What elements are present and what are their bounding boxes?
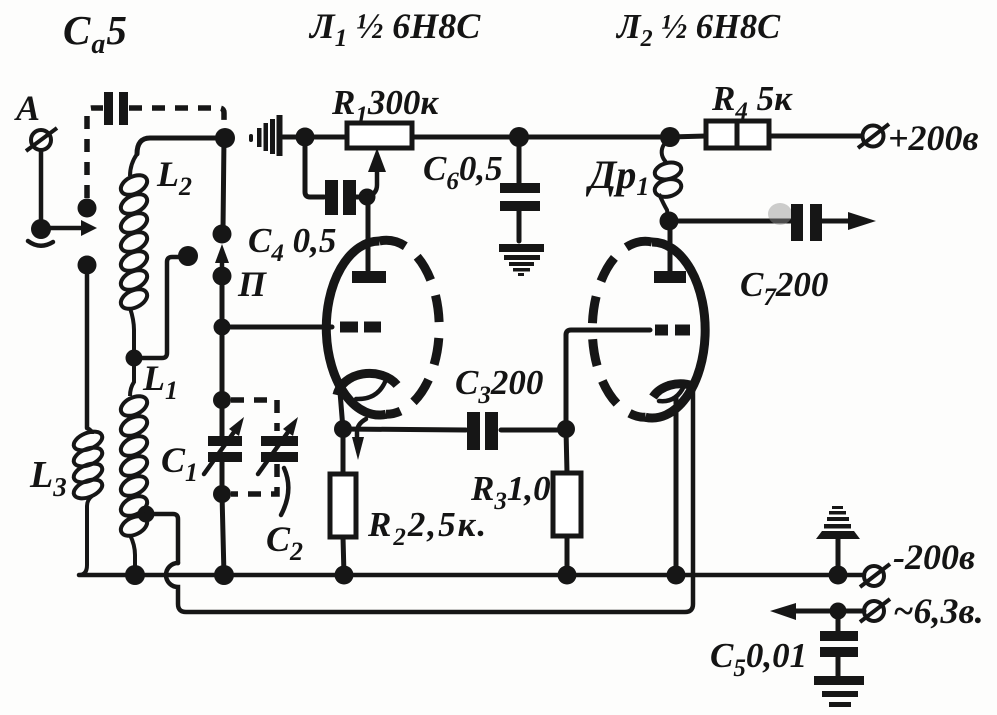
- wire grid junction to C1 top: [220, 327, 225, 400]
- heater line with hop: [166, 390, 693, 612]
- output arrow: [822, 212, 876, 230]
- switch arm arrow: [46, 220, 97, 236]
- node anode/choke junction dot: [660, 212, 679, 231]
- node C6 rail dot: [509, 127, 529, 147]
- dashed box C2 bottom: [231, 464, 277, 494]
- tube Л2 anode: [654, 271, 686, 283]
- node bus dot L1: [125, 565, 145, 585]
- wire cathode to C3: [343, 429, 466, 430]
- wire R2 bottom: [343, 537, 344, 575]
- wire grid leak from rail: [305, 137, 324, 197]
- wire C6 stem: [517, 137, 522, 184]
- tube Л2 cathode lead: [674, 398, 679, 575]
- svg-text:+200в: +200в: [888, 118, 979, 158]
- dashed wire Ca to top junction: [129, 108, 224, 129]
- capacitor Ca plates: [104, 92, 128, 125]
- coil L2: [118, 154, 151, 352]
- tube Л2 cathode arc: [653, 384, 693, 397]
- resistor R1: [347, 123, 412, 148]
- wire ground stem: [836, 539, 841, 575]
- node C3 right dot: [557, 420, 575, 438]
- tube Л1 anode: [352, 271, 386, 283]
- tube Л2 heater arc: [659, 386, 684, 401]
- variable capacitor C2: [258, 417, 298, 474]
- node Dr1 rail dot: [660, 127, 680, 147]
- dashed wire upper contact to Ca: [87, 108, 103, 198]
- tube Л1 heater arc: [356, 382, 385, 399]
- wiper arrow to R1: [367, 148, 386, 197]
- variable capacitor C1: [204, 417, 244, 474]
- switch pivot dot: [31, 219, 51, 239]
- wire П dot down to grid junction: [220, 276, 225, 332]
- resistor R3: [553, 473, 581, 536]
- capacitor C7: [791, 204, 822, 241]
- resistor R4: [706, 121, 769, 148]
- node cathode junction dot: [334, 420, 352, 438]
- tube Л1 cathode arc: [337, 373, 397, 395]
- plug arrow C4: [215, 244, 229, 270]
- wire grid riser tube2: [566, 330, 650, 429]
- bottom bus: [79, 573, 864, 578]
- terminal +200v: [858, 124, 889, 148]
- dashed box C2 top: [231, 400, 277, 431]
- tube Л1 heater lead arrow: [352, 419, 366, 460]
- wire R3 top: [566, 429, 567, 473]
- node R2 bus dot: [335, 566, 354, 585]
- wire C1 bottom plate to bottom dot: [220, 462, 225, 494]
- wire R3 bottom: [565, 536, 570, 575]
- trimmer arc of C2: [281, 468, 288, 515]
- wire C6 node to Dr1 node: [519, 135, 670, 140]
- node -200в bus dot: [829, 566, 848, 585]
- ground below C5: [814, 676, 864, 707]
- tube Л1 grid dashes: [340, 322, 381, 333]
- wire antenna to switch pivot: [39, 151, 44, 222]
- resistor R2: [330, 474, 356, 537]
- wire C1 top to plate: [220, 400, 225, 437]
- heater arrow left: [770, 603, 838, 620]
- tube Л2 anode stem: [668, 222, 673, 271]
- wire C3 to grid node of tube2: [501, 428, 566, 433]
- antenna terminal circle: [26, 128, 57, 151]
- svg-text:-200в: -200в: [893, 537, 975, 577]
- choke Dr1 coil: [653, 138, 683, 217]
- node rail dot at chassis: [296, 128, 315, 147]
- wire R2 top: [341, 429, 346, 474]
- ground above -200в: [816, 506, 860, 539]
- node bus dot C1: [214, 565, 234, 585]
- wire R4 to +200v terminal: [769, 134, 862, 139]
- capacitor C6: [500, 183, 540, 211]
- main vertical line x=222: [223, 138, 224, 229]
- node П lower dot: [213, 267, 232, 286]
- terminal ~6,3в: [860, 599, 890, 622]
- switch pivot arc: [28, 241, 53, 246]
- svg-text:Л1 ½ 6Н8С: Л1 ½ 6Н8С: [308, 6, 481, 52]
- ground below C6: [499, 244, 544, 276]
- svg-text:A: A: [14, 88, 40, 128]
- node tube2 cathode bus dot: [667, 566, 686, 585]
- wire terminal to C5 node: [838, 609, 864, 614]
- tube Л2 envelope dashed: [592, 241, 652, 417]
- node C1 top dot: [213, 391, 231, 409]
- wire tap stub: [134, 257, 178, 358]
- node top junction: [215, 128, 235, 148]
- terminal -200в: [860, 564, 890, 587]
- node L2/L1 junction: [126, 350, 143, 367]
- wire C1 bottom to bus: [222, 494, 224, 575]
- node grid top dot: [359, 189, 376, 206]
- wire C6 to ground: [517, 211, 522, 241]
- tube Л1 envelope solid left: [326, 241, 386, 415]
- switch upper contact dot: [78, 199, 97, 218]
- tube Л2 envelope solid right: [646, 242, 706, 418]
- node C4 upper dot: [213, 225, 232, 244]
- tube Л2 grid dashes: [655, 325, 690, 336]
- wire C5 to ground: [836, 657, 841, 677]
- wire C5 stem: [836, 611, 841, 632]
- wire chassis to R1: [283, 135, 347, 140]
- wire top rail left (L2 top): [137, 138, 224, 154]
- coil L1: [118, 358, 151, 568]
- svg-text:Л2 ½ 6Н8С: Л2 ½ 6Н8С: [615, 8, 781, 52]
- chassis ground symbol top left: [249, 115, 283, 156]
- wire Dr1 node to R4: [670, 136, 706, 137]
- capacitor C5: [820, 631, 858, 657]
- wire lower contact to L3: [85, 265, 90, 428]
- tube Л1 cathode lead: [340, 392, 343, 429]
- switch lower contact dot: [78, 256, 97, 275]
- wire R1 to C6 node: [412, 135, 519, 140]
- svg-text:П: П: [237, 264, 267, 304]
- wire heater tap to down lead: [146, 514, 178, 563]
- grid capacitor plates: [325, 180, 356, 215]
- tube Л1 envelope dashed: [380, 240, 440, 414]
- node C1 bottom dot: [213, 485, 231, 503]
- node tap terminal dot: [178, 246, 198, 266]
- wire grid node to anode cap of tube1: [366, 197, 371, 270]
- coil L3: [71, 428, 105, 575]
- wire cap to grid node: [356, 195, 367, 200]
- node R3 bus dot: [558, 566, 577, 585]
- tube Л1 grid wire: [222, 325, 332, 330]
- svg-text:~6,3в.: ~6,3в.: [893, 591, 984, 631]
- wire output to C7: [669, 219, 791, 224]
- capacitor C3: [467, 412, 498, 450]
- print smudge: [768, 203, 792, 225]
- node C5 dot: [830, 603, 847, 620]
- node grid junction dot: [214, 319, 231, 336]
- node L1 heater tap dot: [138, 506, 155, 523]
